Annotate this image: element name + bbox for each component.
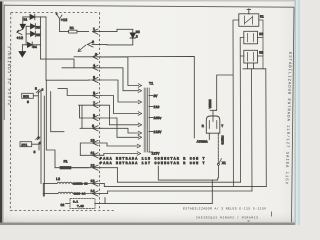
wire Z9 pin11 to tap (101, 154, 138, 156)
transformer tap 127V (149, 151, 153, 153)
tick marks bottom right (248, 212, 272, 222)
svg-text:PARA ENTRADA 127 CONECTAR R CO: PARA ENTRADA 127 CONECTAR R COM T (100, 161, 205, 165)
diode D4 (27, 42, 32, 48)
component BT1 box (20, 142, 32, 147)
wire H2 loop (117, 168, 240, 183)
svg-text:K2: K2 (259, 32, 263, 36)
sheet border left (3, 5, 5, 120)
svg-text:L2: L2 (56, 177, 60, 182)
svg-text:10: 10 (91, 139, 95, 144)
svg-text:2: 2 (92, 40, 94, 45)
wire rail R3 x251.8 (251, 69, 254, 191)
pin 12 (72, 163, 101, 170)
wire rail R4 x265.8 (265, 69, 268, 187)
wire LED return to pin2 (101, 38, 133, 45)
resistor R1 (60, 31, 89, 33)
pin 8 (80, 114, 101, 121)
svg-text:+12: +12 (17, 36, 23, 41)
wire BT1 lead (32, 144, 39, 150)
pin 7 (79, 101, 101, 129)
svg-text:R1: R1 (70, 26, 74, 31)
diode D3 (31, 31, 36, 37)
svg-text:110: 110 (153, 105, 159, 109)
svg-text:115V: 115V (153, 130, 161, 134)
svg-text:VERDE: VERDE (209, 99, 212, 108)
svg-text:PARA ENTRADA 115 CONECTAR R CO: PARA ENTRADA 115 CONECTAR R COM T (100, 157, 205, 161)
svg-text:8V: 8V (153, 94, 157, 98)
wire Z2 pin4 to tap (101, 68, 139, 91)
wire Z4 pin6 to tap (101, 96, 139, 114)
plug stem (210, 110, 216, 116)
wire stem to ground (21, 45, 23, 52)
wire pin12 ext (101, 167, 117, 169)
wire D4 row (22, 44, 40, 46)
pin 11 (80, 151, 101, 158)
svg-text:K3: K3 (259, 51, 263, 55)
dashed control-board outline (10, 13, 115, 212)
svg-text:D1: D1 (24, 17, 28, 21)
svg-text:E: E (38, 137, 40, 140)
svg-text:11: 11 (91, 151, 95, 156)
pin 4 (62, 63, 101, 70)
wire D2 row (26, 25, 40, 27)
svg-text:3: 3 (95, 52, 97, 57)
pin 14 (75, 189, 101, 196)
svg-text:7: 7 (93, 101, 95, 106)
scanner top edge (0, 0, 300, 2)
transformer tap 115V (149, 131, 153, 133)
svg-text:d: d (39, 141, 41, 145)
wire Z3 pin5 to tap (101, 80, 139, 102)
svg-text:R: R (202, 124, 204, 128)
scanner left dark edge (0, 0, 2, 225)
transformer tap 110 (149, 106, 153, 108)
pin 10 (80, 139, 101, 156)
wire Z8 pin10 to tap (101, 143, 138, 146)
wire pin1 to LED D5 (101, 29, 133, 33)
svg-text:MC2: MC2 (23, 95, 29, 99)
svg-text:3: 3 (34, 150, 36, 154)
svg-text:9: 9 (27, 100, 29, 104)
scanner right cyan strip (296, 0, 301, 225)
svg-text:1: 1 (93, 27, 95, 32)
svg-text:D5: D5 (136, 30, 140, 34)
svg-text:8: 8 (93, 114, 95, 119)
wire H1 X1 loop (158, 165, 218, 180)
svg-text:105v: 105v (153, 116, 161, 120)
transistor Q3 marks (36, 137, 41, 141)
svg-text:C100 14: C100 14 (74, 193, 86, 196)
wire plug center stub (208, 133, 210, 139)
wire K1 stem top (247, 9, 251, 14)
wire top-left D1 row (23, 16, 46, 18)
scanner bottom dark edge (0, 223, 300, 226)
svg-text:+: + (56, 13, 58, 17)
svg-text:T: T (221, 124, 223, 128)
pin 6 (58, 89, 101, 99)
svg-text:+12: +12 (61, 18, 67, 23)
svg-text:13: 13 (91, 179, 95, 184)
svg-text:ATERRA: ATERRA (197, 141, 208, 144)
sheet border right (292, 7, 295, 222)
transformer tap 105V (149, 117, 153, 119)
svg-text:K1: K1 (260, 14, 264, 18)
wire plug to switch (217, 133, 219, 158)
sheet border top (4, 5, 294, 7)
wire D3 row (26, 33, 40, 35)
wire left rail bottom (43, 184, 44, 197)
diode D2 (31, 24, 36, 30)
wire right column feed (216, 75, 233, 110)
inductor L3 row (43, 193, 58, 195)
svg-text:C: C (42, 89, 44, 92)
svg-text:D4: D4 (33, 45, 37, 49)
transformer T1 core (144, 88, 149, 152)
relay K1 (239, 14, 259, 26)
svg-text:2: 2 (136, 35, 138, 39)
node +12 top (57, 15, 62, 32)
wire pin3 row long to earth line (101, 56, 194, 138)
plug socket P1 (206, 116, 220, 133)
pin 1 (93, 27, 102, 34)
pin 3 (74, 52, 101, 59)
wire y59 (41, 59, 74, 68)
wire vertical x46 (45, 17, 47, 80)
wire y80 pin5 feed (46, 79, 89, 81)
transistor Q1 emitter arrow (17, 30, 22, 35)
svg-text:PLACA DE CONTROLE: PLACA DE CONTROLE (7, 45, 12, 105)
svg-text:C2: C2 (61, 203, 65, 207)
wire pin13 ext (101, 183, 104, 185)
component MC2 box (22, 93, 34, 98)
ground (19, 52, 26, 57)
svg-text:12: 12 (91, 163, 95, 168)
wire Z6 pin9 to tap (101, 128, 139, 133)
svg-text:4: 4 (93, 63, 95, 68)
svg-text:6: 6 (93, 91, 95, 96)
wire pin14 ext (101, 193, 108, 195)
wire Z5 pin7 to tap (101, 105, 139, 125)
wire C2 to right bus (95, 180, 212, 204)
wire K3 bottom leads (243, 63, 266, 69)
svg-text:F1: F1 (64, 159, 68, 164)
svg-text:PRETO: PRETO (220, 136, 223, 145)
LED D5 (130, 33, 135, 38)
switch X1 (217, 163, 219, 165)
wire Z7 pin8 to tap (101, 118, 139, 137)
svg-text:T1: T1 (149, 81, 153, 86)
wire vertical x40.6 (40, 17, 42, 59)
transformer tap 8V (149, 95, 153, 97)
svg-text:BT1: BT1 (22, 143, 28, 147)
relay K2 (244, 31, 258, 44)
wire verticals below MC2 (38, 90, 44, 196)
svg-text:5: 5 (93, 75, 95, 80)
svg-text:127V: 127V (152, 152, 160, 156)
wire rail R1 x233 (233, 20, 239, 187)
svg-text:T.05: T.05 (77, 205, 84, 208)
wire rail R2 x240 (240, 38, 244, 183)
svg-text:CHEIRIQUI MIRAMI / MIRAMIS: CHEIRIQUI MIRAMI / MIRAMIS (196, 216, 258, 220)
diode D1 (30, 14, 35, 20)
svg-text:ESTABILIZADOR A/ 3 RELES E-115: ESTABILIZADOR A/ 3 RELES E-115 S-115V (183, 206, 266, 210)
wire Z1 pin3 to tap (101, 57, 139, 86)
svg-text:0.1: 0.1 (73, 201, 78, 204)
pin 13 (75, 179, 101, 186)
transistor Q2 marks (36, 90, 41, 94)
relay K3 (244, 50, 258, 63)
arrow to ground top-left (22, 17, 24, 24)
svg-text:E: E (35, 88, 37, 91)
pin 2 (78, 40, 101, 52)
svg-text:X1: X1 (222, 161, 226, 165)
wire MC2 lead (33, 95, 38, 97)
svg-text:C1E1E1 13: C1E1E1 13 (73, 183, 88, 186)
wire H4 loop (108, 191, 252, 194)
pin 5 (89, 75, 102, 82)
svg-text:14: 14 (91, 189, 95, 194)
wire vertical x26.1 (25, 26, 27, 44)
wire rect mid-left (46, 81, 64, 168)
wire relay right stubs rail (258, 20, 264, 69)
svg-text:9: 9 (92, 124, 94, 129)
wire H3 loop (104, 184, 266, 187)
pin 9 (80, 124, 101, 131)
